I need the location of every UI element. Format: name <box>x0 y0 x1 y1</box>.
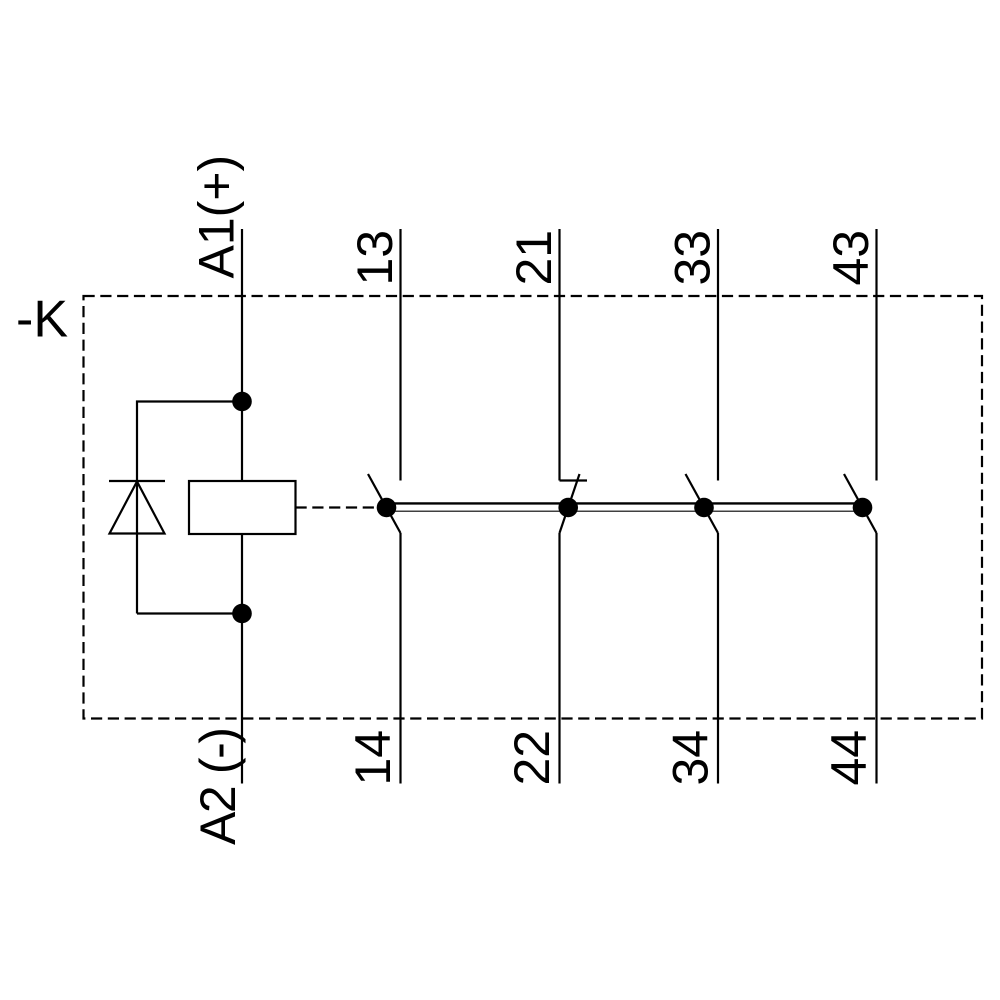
wire lower branch from diode <box>137 612 242 614</box>
svg-text:A2 (-): A2 (-) <box>190 727 246 845</box>
diode V1 suppressor <box>109 481 165 614</box>
svg-text:14: 14 <box>345 730 401 786</box>
relay boundary dashed outline <box>84 296 983 719</box>
NO contact 33-34 <box>686 229 719 784</box>
svg-text:43: 43 <box>823 230 879 286</box>
svg-text:13: 13 <box>347 230 403 286</box>
wire upper branch to diode <box>137 402 242 482</box>
coil K1 <box>189 481 296 534</box>
node junction upper <box>232 392 252 412</box>
svg-text:-K: -K <box>16 291 68 349</box>
svg-text:33: 33 <box>665 230 721 286</box>
wire coil to A2 terminal <box>241 534 243 784</box>
NO contact 43-44 <box>844 229 877 784</box>
svg-text:22: 22 <box>504 730 560 786</box>
wire A1 terminal to coil <box>241 229 243 481</box>
actuator bar double line <box>386 502 862 504</box>
node junction lower <box>232 604 252 624</box>
svg-text:A1(+): A1(+) <box>189 155 245 279</box>
NC contact 21-22 <box>558 229 587 784</box>
svg-text:44: 44 <box>821 730 877 786</box>
svg-text:34: 34 <box>663 730 719 786</box>
dashed mechanical link coil to contacts <box>296 506 385 508</box>
NO contact 13-14 <box>368 229 401 784</box>
svg-text:21: 21 <box>506 230 562 286</box>
